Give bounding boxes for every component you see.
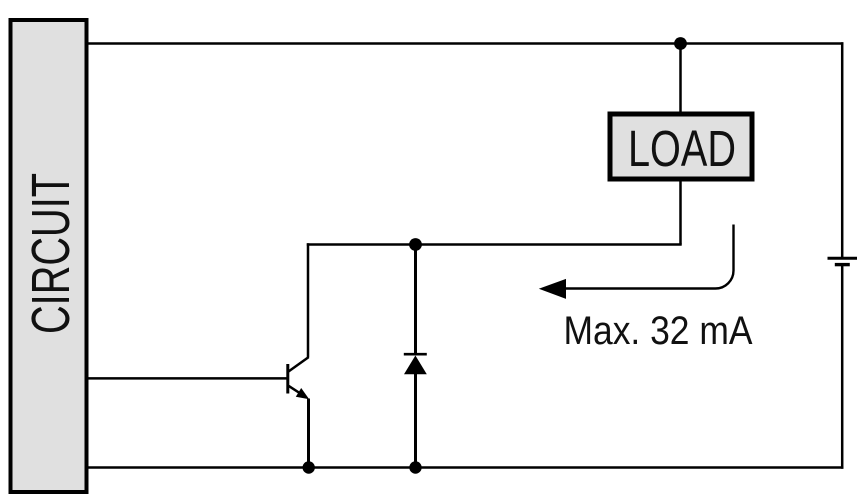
diode D1 (flyback, cathode up) [404,245,427,468]
battery BT1 [828,258,858,264]
D1 cathode bar [404,353,427,356]
wire Q1 emitter down to ground rail [307,399,310,468]
junction node D (diode D1 to return rail) [409,461,421,473]
svg-text:CIRCUIT: CIRCUIT [21,173,81,334]
wire Q1 base to CIRCUIT [89,377,290,380]
junction node B (collector net to diode D1) [409,238,422,251]
Q1 collector diagonal [289,357,309,371]
load LOAD (load box) [610,114,752,179]
wire collector net horizontal [307,243,682,246]
wire top horizontal (V+ rail from CIRCUIT to battery) [89,42,844,45]
Q1 emitter arrowhead [296,388,309,399]
circuit block U1 (CIRCUIT box) [11,20,87,492]
wire collector vertical (to transistor Q1 collector) [307,243,310,357]
transistor Q1 (NPN, open collector) [288,357,309,399]
wire bottom horizontal (return rail from CIRCUIT to battery) [89,466,844,469]
svg-text:LOAD: LOAD [628,120,736,177]
BT1 negative plate (short) [835,263,850,266]
wire from node A down to LOAD top [679,44,682,113]
wire from LOAD bottom down to collector net [679,182,682,245]
Q1 base bar [286,364,289,394]
junction node A (top rail to LOAD) [674,37,687,50]
junction node C (emitter to return rail) [303,461,315,473]
D1 anode triangle [404,356,427,375]
D1 wire from anode down to ground rail [414,373,417,468]
Q1 emitter diagonal [289,386,306,397]
svg-text:Max. 32 mA: Max. 32 mA [564,309,753,353]
current direction arrow (Max. 32 mA) [539,225,734,299]
wire right vertical upper (top rail to battery +) [841,42,844,257]
wire right vertical lower (battery - to return rail) [841,266,844,469]
D1 wire from node B down [414,245,417,355]
BT1 positive plate (long) [828,257,858,260]
